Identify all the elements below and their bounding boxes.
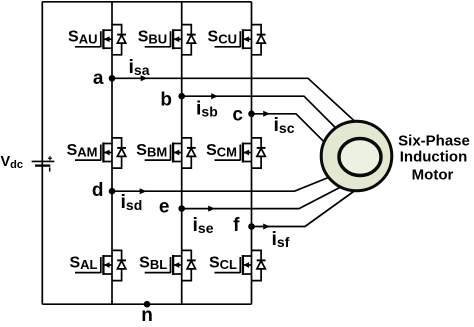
svg-text:isb: isb [196, 98, 218, 120]
arrow i_sd (current direction) [140, 188, 147, 194]
label Six-Phase Induction Motor [398, 133, 470, 184]
transistor SBM (N-MOSFET) [145, 143, 182, 163]
svg-text:f: f [233, 215, 240, 236]
transistor SBL (N-MOSFET) [145, 255, 182, 275]
arrow i_se (current direction) [208, 206, 215, 212]
arrow i_sa (current direction) [141, 75, 148, 81]
node e (junction dot) [178, 205, 185, 212]
wire top DC rail [42, 1, 251, 3]
diode DAM (freewheel, antiparallel) [112, 138, 126, 168]
wire phase f: node f to motor [252, 184, 365, 227]
diode DCM (freewheel, antiparallel) [252, 138, 266, 168]
svg-text:SAL: SAL [69, 255, 97, 273]
svg-text:SCM: SCM [206, 142, 237, 160]
node b (junction dot) [178, 93, 185, 100]
transistor SCM (N-MOSFET) [215, 143, 252, 163]
svg-text:SBM: SBM [136, 142, 167, 160]
wire phase d: node d to motor [112, 168, 352, 191]
transistor SAM (N-MOSFET) [75, 143, 112, 163]
svg-text:isf: isf [272, 228, 290, 250]
wire inverter leg A (vertical) [111, 2, 113, 304]
svg-text:e: e [159, 197, 170, 218]
diode DAL (freewheel, antiparallel) [112, 250, 126, 280]
svg-text:Induction: Induction [400, 149, 468, 166]
node f (junction dot) [248, 223, 255, 230]
svg-text:Motor: Motor [412, 166, 454, 183]
svg-text:Vdc: Vdc [1, 154, 24, 171]
svg-text:a: a [93, 68, 104, 89]
transistor SBU (N-MOSFET) [145, 29, 182, 49]
node a (junction dot) [109, 75, 116, 82]
svg-text:b: b [160, 90, 172, 111]
diode DCU (freewheel, antiparallel) [252, 25, 266, 55]
svg-text:SBU: SBU [138, 29, 167, 47]
arrow i_sf (current direction) [263, 224, 270, 230]
svg-text:d: d [92, 180, 104, 201]
svg-text:Six-Phase: Six-Phase [398, 133, 470, 150]
wire phase c: node c to motor [252, 114, 341, 158]
wire inverter leg C (vertical) [251, 2, 253, 304]
wire inverter leg B (vertical) [181, 2, 183, 304]
diode DBM (freewheel, antiparallel) [182, 138, 196, 168]
svg-text:SCL: SCL [209, 255, 237, 273]
arrow i_sc (current direction) [263, 111, 270, 117]
node d (junction dot) [109, 188, 116, 195]
wire phase b: node b to motor [182, 96, 352, 144]
wire bottom DC rail (net n) [42, 303, 251, 305]
transistor SAL (N-MOSFET) [75, 255, 112, 275]
wire left DC rail (battery branch) [41, 2, 43, 304]
svg-text:isd: isd [121, 191, 143, 213]
svg-text:SCU: SCU [208, 29, 237, 47]
node c (junction dot) [248, 111, 255, 118]
battery Vdc (DC source) [32, 156, 55, 172]
wire phase a: node a to motor [112, 78, 368, 133]
transistor SCL (N-MOSFET) [215, 255, 252, 275]
svg-text:isc: isc [274, 114, 295, 136]
motor M1 rotor (inner circle) [339, 139, 381, 176]
svg-text:SAU: SAU [68, 29, 97, 47]
arrow i_sb (current direction) [211, 93, 218, 99]
transistor SAU (N-MOSFET) [75, 29, 112, 49]
svg-text:n: n [141, 305, 153, 326]
diode DBU (freewheel, antiparallel) [182, 25, 196, 55]
wire phase e: node e to motor [182, 177, 360, 209]
svg-text:ise: ise [193, 214, 214, 236]
svg-text:isa: isa [129, 56, 150, 78]
diode DCL (freewheel, antiparallel) [252, 250, 266, 280]
svg-text:SBL: SBL [139, 255, 167, 273]
diode DBL (freewheel, antiparallel) [182, 250, 196, 280]
node n (junction dot on bottom rail) [144, 301, 151, 308]
diode DAU (freewheel, antiparallel) [112, 25, 126, 55]
svg-text:c: c [232, 105, 243, 126]
motor M1: six-phase induction motor (stator) [321, 121, 392, 191]
transistor SCU (N-MOSFET) [215, 29, 252, 49]
svg-text:SAM: SAM [67, 142, 98, 160]
